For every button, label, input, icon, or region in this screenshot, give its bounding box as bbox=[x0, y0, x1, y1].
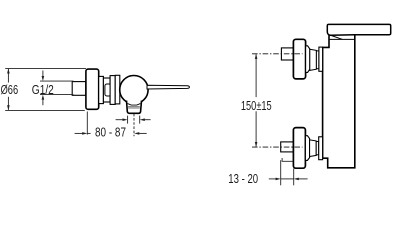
arrow left-pointing at right tick bbox=[140, 118, 145, 121]
G1/2 inlet nipple (left view) bbox=[72, 82, 86, 96]
neck between flange and body bbox=[99, 76, 104, 103]
valve body circle bbox=[120, 76, 148, 104]
bottom G1/2 nipple (front view) bbox=[281, 142, 294, 152]
left arrow shaft bbox=[75, 132, 83, 134]
G1/2 top extension line bbox=[40, 80, 74, 82]
right arrow shaft bbox=[299, 178, 308, 180]
150 dim line upper bbox=[255, 54, 257, 97]
bottom collar bbox=[305, 136, 309, 161]
150 dim line lower bbox=[255, 111, 257, 146]
bottom washer bbox=[316, 142, 319, 155]
G1/2 bottom extension line bbox=[40, 94, 74, 96]
aerator band bottom line bbox=[128, 107, 140, 109]
arrow left-pointing at right ext bbox=[294, 178, 299, 181]
left arrow shaft bbox=[269, 178, 276, 180]
escutcheon ring plate bbox=[115, 75, 120, 104]
tall cartridge plate bbox=[110, 76, 115, 105]
aerator gray band bbox=[128, 106, 140, 108]
bottom wall flange (front view) bbox=[293, 128, 305, 169]
bottom union neck bbox=[310, 140, 317, 157]
lever handle (front view) bbox=[327, 24, 390, 35]
Ø66 bottom extension line bbox=[5, 109, 85, 111]
top washer bbox=[316, 51, 319, 69]
top collar bbox=[306, 46, 310, 73]
inner notch on body block bbox=[105, 84, 111, 96]
svg-text:150±15: 150±15 bbox=[241, 99, 272, 113]
svg-text:G1/2: G1/2 bbox=[32, 83, 54, 97]
arrow right-pointing at wall line bbox=[82, 132, 87, 135]
bottom inlet centerline bbox=[252, 146, 303, 148]
G1/2 arrow down (to top line) bbox=[42, 76, 45, 81]
Ø66 dimension line upper bbox=[7, 69, 9, 83]
hidden ledge under bottom nipple bbox=[282, 158, 293, 161]
Ø66 dimension line lower bbox=[7, 97, 9, 110]
G1/2 upper arrow shaft bbox=[42, 71, 44, 77]
dimension Ø66 bbox=[5, 68, 86, 110]
bottom step to body bbox=[319, 137, 323, 160]
cartridge cone under handle bbox=[331, 35, 342, 39]
dimension 80 - 87 bbox=[75, 112, 147, 135]
svg-text:80 - 87: 80 - 87 bbox=[95, 126, 126, 140]
top wall flange (front view) bbox=[293, 39, 305, 79]
right extension line (wall plane) bbox=[293, 169, 295, 186]
left extension line (nipple end) bbox=[280, 160, 282, 185]
right tick bbox=[139, 116, 141, 124]
svg-text:Ø66: Ø66 bbox=[1, 83, 19, 97]
between line bbox=[281, 178, 294, 180]
aerator chevron bbox=[128, 104, 141, 106]
dimension 13 - 20 bbox=[269, 160, 308, 185]
body fill bbox=[323, 35, 355, 168]
lever handle rod bbox=[147, 85, 189, 89]
Ø66 top extension line bbox=[5, 67, 86, 69]
top union neck bbox=[310, 49, 317, 70]
svg-text:13 - 20: 13 - 20 bbox=[228, 172, 258, 186]
body outline bbox=[323, 35, 355, 168]
wall flange (left view) bbox=[86, 69, 99, 109]
top inlet centerline bbox=[252, 53, 303, 55]
aerator band top line bbox=[128, 106, 140, 108]
arrow right-pointing at left tick bbox=[123, 118, 128, 121]
150 arrow up bbox=[255, 54, 258, 59]
outlet center dashed line bbox=[133, 114, 135, 136]
G1/2 lower arrow shaft bbox=[42, 100, 44, 105]
arrow right-pointing at left ext bbox=[276, 178, 281, 181]
wall plane extension line bbox=[86, 112, 88, 135]
dimension outlet width (unlabeled row) bbox=[116, 114, 151, 136]
outlet body below circle bbox=[127, 101, 142, 114]
dimension 150±15 bbox=[255, 54, 257, 146]
left tick bbox=[127, 116, 129, 124]
body block bbox=[103, 78, 110, 102]
overshoot right of wall line bbox=[87, 132, 90, 134]
G1/2 arrow up (to bottom line) bbox=[42, 95, 45, 100]
dimension G1/2 bbox=[40, 71, 74, 106]
cap top line bbox=[329, 38, 354, 40]
top G1/2 nipple (front view) bbox=[281, 48, 293, 60]
right arrow shaft bbox=[144, 119, 150, 121]
arrow left-pointing at outlet axis bbox=[134, 132, 139, 135]
Ø66 arrow up bbox=[7, 68, 10, 73]
right arrow shaft bbox=[139, 132, 147, 134]
Ø66 arrow down bbox=[7, 105, 10, 110]
150 arrow down bbox=[255, 142, 258, 147]
left arrow shaft bbox=[116, 119, 123, 121]
top step to body bbox=[319, 47, 323, 71]
